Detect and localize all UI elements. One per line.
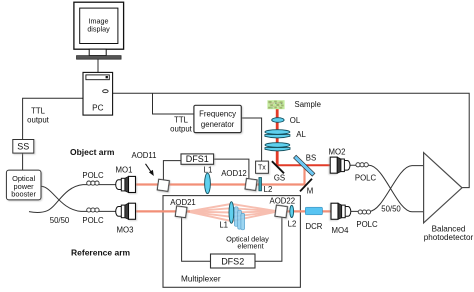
- balanced photodetector triangle: [424, 153, 462, 223]
- galvo scanner GS mirror: [272, 161, 284, 173]
- svg-text:50/50: 50/50: [381, 205, 401, 214]
- svg-text:Sample: Sample: [295, 100, 321, 109]
- POLC coil lower left: [87, 208, 99, 212]
- svg-text:L2: L2: [264, 185, 273, 194]
- wire SS to optical power booster: [22, 153, 24, 170]
- AOD12: [245, 178, 257, 190]
- fiber MO2 to detector: [350, 165, 424, 212]
- svg-text:DFS2: DFS2: [221, 257, 244, 267]
- beam AOD22 to MO4 through L2 and DCR: [283, 210, 331, 212]
- beam object arm MO1 to mirror M: [135, 183, 305, 185]
- svg-text:booster: booster: [11, 190, 36, 199]
- svg-text:L1: L1: [219, 221, 228, 230]
- svg-text:AOD21: AOD21: [170, 198, 196, 207]
- svg-text:AOD22: AOD22: [270, 196, 296, 205]
- svg-text:GS: GS: [274, 173, 285, 182]
- multiplexer box: [163, 196, 300, 288]
- lens L1 multiplexer: [229, 202, 234, 224]
- wire monitor to PC: [97, 59, 99, 72]
- svg-text:50/50: 50/50: [50, 216, 70, 225]
- POLC coil MO2: [356, 163, 368, 167]
- svg-text:Tx: Tx: [258, 165, 266, 172]
- beam GS to MO2 (red): [276, 164, 331, 166]
- fiber booster to coupler to MO3: [42, 186, 117, 211]
- optical power booster box: [6, 170, 41, 200]
- DFS2 box: [211, 254, 256, 268]
- svg-text:Balanced: Balanced: [432, 225, 466, 234]
- svg-text:POLC: POLC: [356, 220, 378, 229]
- microscope objective MO4: [331, 203, 351, 219]
- fiber MO4 to detector: [351, 166, 424, 212]
- AOD11 pointer arrow: [146, 164, 154, 176]
- lens L2 object arm: [259, 178, 262, 191]
- beamsplitter BS: [294, 155, 315, 176]
- AOD22: [275, 205, 288, 218]
- achromatic lens AL group 1: [265, 130, 290, 138]
- optical delay element plates: [234, 207, 244, 230]
- svg-text:display: display: [87, 24, 110, 33]
- frequency generator box: [194, 105, 241, 132]
- svg-text:MO3: MO3: [117, 226, 134, 235]
- wire frequency generator to Tx: [241, 118, 261, 161]
- svg-text:PC: PC: [92, 103, 103, 112]
- svg-text:TTL: TTL: [31, 107, 46, 116]
- svg-text:Object arm: Object arm: [70, 147, 115, 157]
- POLC coil MO4: [358, 210, 370, 214]
- lens L2 multiplexer: [290, 205, 294, 217]
- monitor: [74, 2, 124, 59]
- svg-text:AOD12: AOD12: [221, 169, 247, 178]
- svg-text:DCR: DCR: [306, 222, 323, 231]
- svg-text:Multiplexer: Multiplexer: [181, 275, 221, 284]
- svg-text:DFS1: DFS1: [186, 154, 209, 164]
- svg-text:output: output: [27, 116, 50, 125]
- mirror M: [300, 179, 312, 192]
- SS box: [13, 140, 34, 154]
- svg-text:MO1: MO1: [116, 166, 133, 175]
- microscope objective MO1: [116, 176, 136, 192]
- beam GS up to sample (red): [276, 103, 279, 166]
- lens L1 object arm: [205, 173, 211, 194]
- svg-text:Reference arm: Reference arm: [71, 248, 131, 258]
- svg-text:POLC: POLC: [82, 216, 104, 225]
- svg-text:SS: SS: [17, 142, 29, 152]
- AOD21: [175, 206, 187, 218]
- AOD11: [157, 179, 169, 191]
- svg-text:output: output: [170, 125, 193, 134]
- wire branch to frequency generator (TTL output): [153, 93, 194, 114]
- svg-text:M: M: [307, 186, 314, 195]
- svg-text:Frequency: Frequency: [199, 109, 236, 118]
- DFS1 box: [181, 154, 214, 164]
- wire DFS1 to AOD12: [214, 159, 249, 178]
- PC tower: [83, 72, 113, 115]
- fiber loose input to coupler to MO1: [29, 185, 116, 213]
- wire AOD11 to DFS1: [163, 161, 181, 180]
- wire AOD21 to DFS2: [182, 217, 211, 261]
- sample: [267, 100, 284, 109]
- wire DFS2 to AOD22: [255, 218, 282, 262]
- DCR box: [305, 207, 322, 215]
- beam mirror M up to BS: [303, 167, 305, 186]
- svg-text:MO2: MO2: [329, 148, 346, 157]
- objective lens OL: [272, 118, 284, 123]
- svg-text:OL: OL: [290, 116, 301, 125]
- achromatic lens AL group 2: [265, 143, 290, 151]
- svg-text:AL: AL: [296, 130, 306, 139]
- svg-text:element: element: [237, 242, 263, 251]
- svg-text:photodetector: photodetector: [424, 233, 474, 242]
- svg-text:MO4: MO4: [332, 226, 350, 235]
- beam fan AOD21 to AOD22 through L1: [188, 204, 278, 221]
- svg-text:generator: generator: [201, 120, 235, 129]
- microscope objective MO2: [330, 157, 350, 173]
- svg-text:AOD11: AOD11: [132, 151, 157, 160]
- svg-text:TTL: TTL: [174, 116, 189, 125]
- svg-text:L2: L2: [288, 219, 297, 228]
- svg-text:BS: BS: [306, 154, 316, 163]
- POLC coil upper left: [87, 181, 99, 185]
- svg-text:POLC: POLC: [355, 174, 377, 183]
- microscope objective MO3: [116, 203, 136, 219]
- Tx box: [256, 161, 269, 173]
- svg-text:POLC: POLC: [82, 171, 104, 180]
- wire PC to balanced photodetector: [113, 93, 470, 187]
- beam reference arm MO3 to AOD21: [136, 210, 190, 212]
- svg-text:L1: L1: [204, 165, 213, 174]
- wire PC to SS (TTL output): [23, 98, 83, 141]
